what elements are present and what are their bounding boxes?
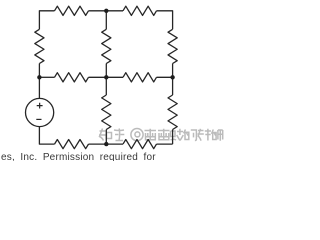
resistor R11 (right column lower) xyxy=(168,95,177,130)
node C junction dot (middle centre) xyxy=(104,75,108,79)
plus sign of V1 xyxy=(37,103,43,109)
wire R3 to node B xyxy=(38,64,40,78)
wire R6 to node C xyxy=(89,76,107,78)
node D junction dot (middle right) xyxy=(170,75,174,79)
wire R5 to node D xyxy=(172,64,174,78)
node B junction dot (middle left) xyxy=(37,75,41,79)
minus sign of V1 xyxy=(36,118,41,120)
node E junction dot (bottom middle) xyxy=(104,142,108,146)
voltage source V1 xyxy=(25,98,53,126)
wire R7 to node D xyxy=(157,76,173,78)
resistor R3 (left column) xyxy=(35,29,44,63)
wire node E to R10 xyxy=(106,143,123,145)
resistor R4 (middle column upper) xyxy=(102,29,111,63)
wire R8 to node E xyxy=(89,143,107,145)
resistor R10 (bottom row right) xyxy=(123,140,157,149)
svg-text:es, Inc. Permission required f: es, Inc. Permission required for xyxy=(1,152,156,161)
wire node C to R7 xyxy=(106,76,123,78)
wire node D to R11 xyxy=(172,77,174,95)
resistor R9 (middle column lower) xyxy=(102,95,111,130)
wire R9 to node E xyxy=(105,130,107,145)
node A junction dot (top middle) xyxy=(104,9,108,13)
resistor R2 (top right) xyxy=(123,6,157,15)
wire R1 to node A xyxy=(89,10,124,12)
resistor R1 (top left) xyxy=(55,6,89,15)
resistor R7 (middle row right) xyxy=(123,73,157,82)
resistor R6 (middle row left) xyxy=(55,73,89,82)
wire node B to voltage source xyxy=(38,77,40,98)
resistor R8 (bottom row left) xyxy=(55,140,89,149)
wire top-left corner to R1 xyxy=(39,11,54,30)
wire node B to R6 xyxy=(39,76,54,78)
wire R11 to bottom-right corner xyxy=(172,130,174,145)
wire node C to R9 xyxy=(105,77,107,95)
wire R10 to bottom-right corner xyxy=(157,143,173,145)
resistor R5 (right column upper) xyxy=(168,29,177,63)
wire R2 to top-right corner down to R5 xyxy=(157,11,173,30)
wire R4 to node C xyxy=(105,64,107,78)
wire voltage source to bottom-left corner xyxy=(39,127,54,145)
wire node A to R4 xyxy=(105,11,107,30)
